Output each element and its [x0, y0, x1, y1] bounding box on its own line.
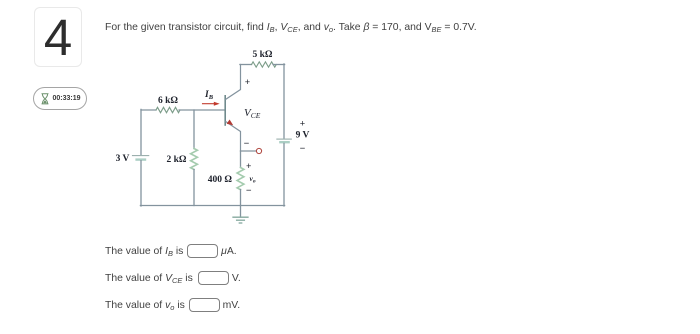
svg-text:+: + [246, 162, 251, 172]
transistor Q1 collector lead [226, 65, 241, 100]
svg-text:9 V: 9 V [296, 131, 310, 141]
wire: right rail lower (9V battery to bottom-right corner) [283, 143, 285, 206]
wire: right rail upper (top-right corner down to 9V battery) [283, 64, 285, 138]
svg-text:−: − [300, 144, 306, 155]
wire: base rail right segment (6k to transistor base) [179, 109, 225, 111]
answer row 1 [105, 244, 237, 260]
wire: left rail upper (top-left corner down to 3V battery) [140, 109, 142, 154]
battery 3V plates [133, 155, 149, 157]
wire: 2k branch lower (2k to bottom rail) [193, 170, 195, 206]
resistor 5 kOhm [252, 62, 277, 67]
resistor 400 Ohm [237, 168, 244, 190]
transistor Q1 emitter lead [226, 122, 241, 151]
question text [105, 22, 477, 33]
wire: 2k branch upper (junction on base rail down to 2k) [193, 110, 195, 149]
ground [240, 206, 242, 218]
wire: 400 ohm to bottom rail [240, 190, 242, 206]
wire: output stub to terminal [241, 150, 256, 152]
answer row 2 [105, 271, 241, 287]
battery 9V plates [277, 138, 291, 140]
svg-text:6 kΩ: 6 kΩ [158, 96, 178, 106]
svg-text:VCE: VCE [244, 107, 261, 120]
wire: top rail right segment (5k to top-right corner) [273, 64, 285, 66]
question number box [34, 7, 82, 67]
wire: left rail lower (battery to bottom-left corner) [140, 161, 142, 206]
wire: bottom rail [140, 205, 284, 207]
svg-text:400 Ω: 400 Ω [208, 175, 233, 185]
svg-text:−: − [244, 139, 250, 150]
svg-text:3 V: 3 V [116, 154, 130, 164]
svg-text:+: + [300, 120, 305, 130]
svg-text:+: + [245, 78, 250, 88]
current arrow IB [203, 103, 215, 105]
wire: emitter branch (output junction down to 400 ohm) [240, 151, 242, 168]
hourglass icon [41, 93, 49, 105]
svg-text:2 kΩ: 2 kΩ [166, 155, 186, 165]
node vo terminal (open circle) [256, 148, 261, 153]
wire: top rail left segment (collector riser to 5k) [240, 64, 252, 66]
answer row 3 [105, 298, 240, 314]
wire: base rail left segment (top-left node to 6k resistor) [141, 109, 156, 111]
svg-text:5 kΩ: 5 kΩ [252, 50, 272, 60]
svg-text:IB: IB [204, 90, 214, 101]
timer badge [33, 87, 87, 110]
transistor Q1 emitter arrowhead [227, 120, 234, 126]
resistor 2 kOhm [191, 149, 198, 170]
svg-text:vo: vo [250, 174, 256, 185]
transistor Q1 base bar [224, 96, 226, 125]
resistor 6 kOhm [156, 107, 180, 112]
svg-text:−: − [246, 186, 252, 197]
